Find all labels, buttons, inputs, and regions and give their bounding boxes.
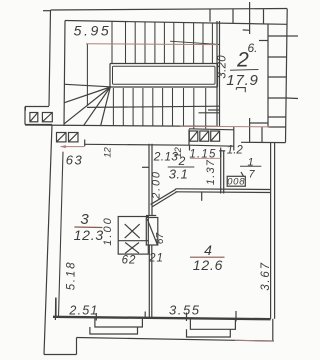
svg-text:17.9: 17.9 — [226, 72, 258, 89]
svg-text:12: 12 — [173, 147, 184, 158]
svg-text:2.51: 2.51 — [68, 304, 98, 318]
svg-text:62: 62 — [122, 255, 137, 267]
svg-text:21: 21 — [148, 253, 164, 265]
svg-text:3.55: 3.55 — [169, 303, 201, 318]
svg-text:5.95: 5.95 — [74, 23, 112, 39]
svg-text:6.: 6. — [247, 41, 257, 55]
svg-text:63: 63 — [66, 153, 83, 168]
svg-text:1.37: 1.37 — [205, 159, 217, 185]
svg-text:2: 2 — [236, 49, 249, 72]
svg-text:1.2: 1.2 — [227, 145, 244, 157]
svg-text:12.6: 12.6 — [193, 257, 223, 273]
svg-text:4: 4 — [204, 242, 212, 258]
svg-text:12: 12 — [103, 147, 114, 158]
svg-text:1.15: 1.15 — [189, 149, 216, 161]
svg-text:5.18: 5.18 — [66, 261, 78, 291]
svg-text:3.20: 3.20 — [216, 55, 228, 79]
svg-text:7: 7 — [248, 169, 255, 181]
svg-text:3.67: 3.67 — [260, 261, 272, 291]
svg-text:2.00: 2.00 — [151, 170, 163, 200]
svg-text:008: 008 — [227, 177, 245, 188]
svg-text:12.3: 12.3 — [74, 227, 104, 243]
svg-text:67: 67 — [155, 233, 166, 245]
svg-text:1.00: 1.00 — [102, 216, 114, 245]
svg-text:3.1: 3.1 — [169, 167, 189, 182]
svg-text:3: 3 — [80, 211, 89, 228]
